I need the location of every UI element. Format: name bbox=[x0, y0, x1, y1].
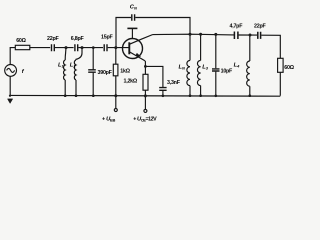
svg-text:15pF: 15pF bbox=[101, 34, 113, 40]
svg-text:22pF: 22pF bbox=[47, 36, 59, 42]
svg-text:1,2kΩ: 1,2kΩ bbox=[124, 78, 138, 84]
svg-text:+ UEB: + UEB bbox=[102, 116, 115, 122]
svg-text:L4: L4 bbox=[234, 62, 241, 68]
svg-text:60Ω: 60Ω bbox=[16, 38, 26, 44]
svg-text:60Ω: 60Ω bbox=[284, 65, 294, 71]
svg-text:10pF: 10pF bbox=[221, 68, 233, 74]
svg-text:3,3nF: 3,3nF bbox=[167, 80, 181, 86]
svg-text:390pF: 390pF bbox=[98, 70, 113, 76]
svg-text:4,7pF: 4,7pF bbox=[230, 24, 244, 30]
svg-text:LN: LN bbox=[179, 64, 186, 70]
svg-text:L1: L1 bbox=[58, 62, 65, 68]
svg-text:1kΩ: 1kΩ bbox=[120, 69, 130, 75]
svg-text:L3: L3 bbox=[202, 64, 209, 70]
svg-text:f: f bbox=[22, 69, 25, 75]
svg-text:+ UCE=12V: + UCE=12V bbox=[133, 116, 157, 122]
svg-text:L2: L2 bbox=[70, 62, 77, 68]
svg-text:CN: CN bbox=[130, 4, 137, 10]
svg-text:22pF: 22pF bbox=[254, 24, 266, 30]
svg-text:6,8pF: 6,8pF bbox=[71, 36, 85, 42]
